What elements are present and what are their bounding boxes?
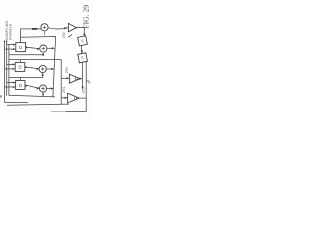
svg-text:D: D [19, 83, 23, 88]
svg-text:FIG. 29: FIG. 29 [82, 5, 91, 29]
svg-text:293: 293 [65, 67, 69, 73]
svg-text:S: S [81, 38, 85, 44]
svg-text:292: 292 [62, 32, 66, 38]
svg-text:D: D [19, 45, 23, 50]
svg-text:SIGNALS: SIGNALS [9, 23, 13, 40]
svg-text:D: D [19, 65, 23, 70]
svg-text:S: S [81, 55, 85, 60]
svg-text:295: 295 [82, 87, 86, 93]
svg-text:6: 6 [88, 82, 92, 84]
svg-text:294: 294 [62, 87, 66, 93]
